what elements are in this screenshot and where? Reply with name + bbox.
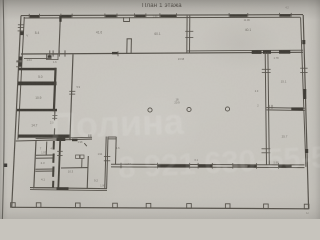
colonnade post square (36, 203, 41, 208)
door tick (262, 148, 271, 150)
margin mark (4, 164, 8, 168)
stub down wall (115, 137, 118, 165)
door tick (262, 68, 271, 70)
colonnade post square (225, 204, 230, 209)
window jamb tick (232, 163, 234, 169)
page fold crease (2, 0, 4, 219)
window pier on top wall (62, 15, 72, 18)
window jamb tick (189, 163, 191, 169)
window pier on top wall (106, 15, 117, 18)
window jamb tick (116, 14, 118, 18)
top band stub wall right line (130, 39, 132, 54)
block top wall second line (36, 137, 92, 138)
corridor wall (70, 54, 73, 140)
colonnade post square (187, 204, 192, 209)
window glazing tick (16, 61, 22, 63)
window jamb tick (277, 163, 279, 169)
window glazing tick (16, 60, 22, 62)
colonnade post square (11, 203, 16, 208)
stack right wall (52, 181, 54, 188)
block bottom wall (30, 188, 107, 189)
dark door leaf (48, 55, 52, 58)
door jamb tick (117, 51, 119, 56)
door tick (57, 150, 63, 152)
left rooms right wall thick (54, 68, 56, 111)
small room wall (36, 154, 55, 156)
window pier on top wall (30, 15, 39, 18)
pier at divider top (59, 16, 61, 22)
door jamb tick (64, 50, 66, 56)
outer wall left outer line (12, 16, 21, 208)
window jamb tick (156, 163, 158, 169)
outer wall top outer line (21, 15, 303, 16)
window jamb tick (290, 13, 292, 17)
hall column circle (148, 108, 152, 112)
hall bottom wall top line (111, 163, 305, 166)
outer wall right outer line (303, 15, 308, 209)
stack top room divider (45, 142, 48, 156)
door tick (104, 156, 110, 158)
door tick (69, 93, 75, 95)
tiny tick (88, 134, 90, 137)
hall column circle (187, 107, 191, 111)
right rooms divider top line (267, 107, 305, 110)
pier on block top wall (57, 138, 66, 141)
door jamb tick (49, 50, 51, 56)
window jamb tick (134, 13, 136, 17)
pier on right wall (302, 40, 305, 44)
top band bottom wall second line (right) (187, 49, 303, 52)
window jamb tick (120, 163, 122, 169)
window jamb tick (197, 163, 199, 169)
tiny tick (90, 134, 92, 137)
window glazing tick (16, 66, 22, 68)
window glazing tick (18, 24, 24, 26)
window pier on left wall (19, 57, 22, 61)
small room wall (36, 157, 55, 159)
small dark mark (84, 143, 87, 146)
pier on band wall (279, 50, 290, 54)
left room wall band (17, 109, 57, 112)
top band stub wall left line (126, 39, 128, 54)
stub wall (108, 136, 116, 138)
pier on hall bottom wall (198, 165, 212, 167)
stack right wall (53, 141, 55, 150)
window tick on right wall (300, 72, 307, 74)
left room wall band (18, 82, 57, 86)
door tick (262, 72, 271, 74)
small room wall (36, 168, 55, 170)
colonnade post square (304, 204, 309, 209)
window glazing tick (18, 26, 24, 28)
door tick (104, 160, 110, 162)
top band bottom wall (21, 52, 303, 54)
room3 bottom wall band (18, 135, 70, 138)
small room wall (35, 187, 54, 189)
block left wall (34, 140, 36, 188)
door tick (52, 117, 57, 119)
staircase box (47, 54, 58, 59)
pier on hall bottom wall (247, 165, 256, 167)
window jamb tick (71, 14, 73, 18)
baseline bottom (12, 207, 309, 209)
pier on right wall (303, 89, 306, 99)
watermark phone (117, 138, 320, 186)
window jamb tick (39, 14, 41, 18)
pier on hall bottom wall (158, 165, 190, 167)
outer wall right inner line (301, 18, 306, 167)
window pier on top wall (135, 15, 145, 18)
stack right wall (52, 167, 54, 177)
pier on block top wall (72, 139, 78, 142)
stack right wall (52, 154, 54, 163)
door tick (52, 115, 57, 117)
hall column circle (225, 107, 229, 111)
door tick (185, 36, 193, 38)
door tick (271, 105, 273, 109)
window tick on right wall (300, 67, 307, 69)
window jamb tick (176, 13, 178, 17)
door tick (185, 30, 193, 32)
pier on hall bottom wall (278, 165, 291, 167)
window pier on top wall (280, 14, 291, 17)
outer wall top inner line (24, 16, 301, 19)
window pier on left wall (19, 62, 22, 66)
pier on band wall (263, 50, 271, 54)
wc fixture (76, 155, 80, 159)
pilaster under top wall (124, 17, 130, 21)
right rooms divider bottom line (267, 109, 305, 112)
top band divider wall (double) a (186, 16, 188, 53)
entrance platform line (24, 58, 52, 60)
colonnade post square (264, 204, 269, 209)
watermark name (49, 101, 184, 148)
door tick (69, 90, 75, 92)
hall bottom wall bottom line (111, 166, 305, 169)
pier on band wall (252, 50, 262, 54)
block partition (61, 167, 88, 169)
right double wall b (268, 52, 269, 164)
top band divider wall (double) b (189, 16, 191, 53)
window jamb tick (104, 14, 106, 18)
block bottom wall second (30, 190, 107, 191)
window jamb tick (228, 13, 230, 17)
pier on right wall (305, 149, 308, 153)
window jamb tick (145, 13, 147, 17)
pier on hall bottom wall (233, 165, 248, 167)
window pier on top wall (230, 14, 248, 16)
title: План 1 этажа (142, 3, 182, 9)
window jamb tick (256, 163, 258, 169)
colonnade post square (146, 203, 151, 208)
block central wall (58, 140, 60, 188)
door jamb tick (58, 50, 60, 56)
window jamb tick (60, 14, 62, 18)
window jamb tick (28, 14, 30, 18)
small wc partition (81, 158, 83, 168)
colonnade post square (76, 203, 81, 208)
stub wall top cap (127, 38, 132, 40)
door tick (262, 152, 271, 154)
pier on block bottom wall (57, 187, 69, 190)
window pier on top wall (161, 15, 177, 18)
stub wall lower (108, 138, 116, 140)
spacer (36, 140, 55, 142)
door jamb tick (52, 50, 54, 56)
window glazing tick (18, 30, 24, 32)
colonnade post square (113, 203, 118, 208)
door tick (57, 155, 63, 157)
window jamb tick (278, 13, 280, 17)
window jamb tick (247, 13, 249, 17)
block partition (87, 156, 88, 189)
pier on band wall (112, 52, 118, 54)
wc fixture (80, 155, 84, 159)
right double wall a (265, 52, 266, 164)
left rooms right wall (54, 111, 56, 120)
small room wall (35, 170, 54, 172)
window pier on left wall (20, 31, 23, 35)
left room wall band (19, 68, 57, 71)
window jamb tick (159, 13, 161, 17)
pier on divider (291, 107, 303, 110)
block right wall b (107, 137, 108, 189)
outer wall left inner line (18, 17, 24, 140)
block right wall a (105, 137, 106, 189)
block top wall (16, 139, 92, 141)
window jamb tick (211, 163, 213, 169)
door tick (268, 105, 270, 109)
top band divider wall (59, 15, 61, 54)
left rooms right wall (53, 128, 55, 136)
